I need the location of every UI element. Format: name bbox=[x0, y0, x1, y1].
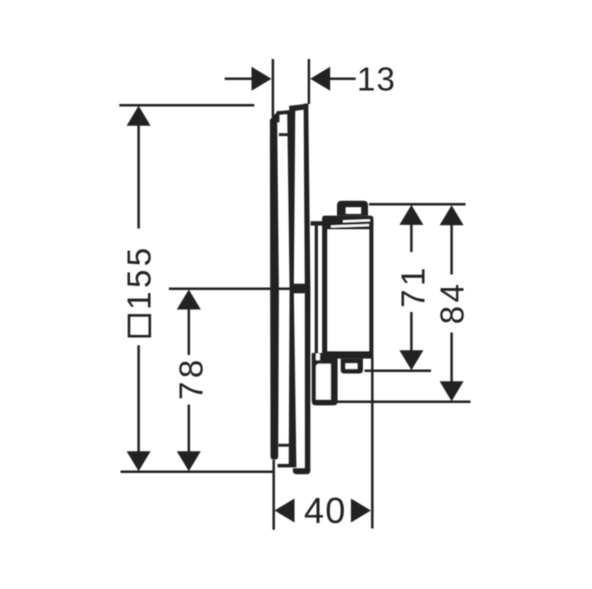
svg-text:71: 71 bbox=[394, 264, 431, 308]
svg-text:40: 40 bbox=[304, 490, 346, 531]
svg-text:78: 78 bbox=[172, 356, 209, 400]
svg-text:84: 84 bbox=[434, 280, 471, 324]
svg-text:155: 155 bbox=[120, 244, 157, 310]
svg-text:13: 13 bbox=[357, 61, 396, 98]
